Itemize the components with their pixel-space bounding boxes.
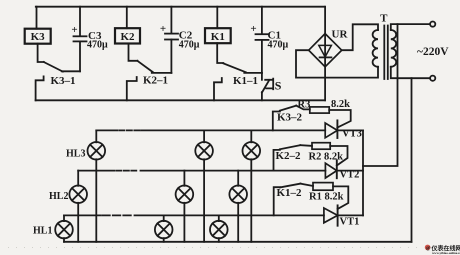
wire R2 to gate VT2 <box>330 146 347 166</box>
relay contact K1-2 <box>274 187 280 215</box>
relay contact K1-1 <box>217 43 223 63</box>
svg-text:K2–2: K2–2 <box>276 150 302 162</box>
wire UR right vertex to transformer coil top <box>342 24 378 50</box>
lamp HL3a <box>95 130 97 142</box>
lamp row HL3 wire <box>96 129 117 131</box>
wire cathode rail <box>362 130 364 215</box>
relay contact K2-1 <box>129 44 138 61</box>
relay contact K3-2 <box>273 112 280 131</box>
bridge rectifier UR <box>324 7 326 34</box>
svg-text:470μ: 470μ <box>87 40 108 51</box>
svg-text:K1–2: K1–2 <box>277 187 303 199</box>
relay contact K3-1 <box>38 44 44 62</box>
svg-text:VT3: VT3 <box>342 129 362 140</box>
svg-text:K3: K3 <box>31 31 46 43</box>
thyristor VT2 <box>325 163 336 178</box>
terminal upper 220V <box>430 22 435 27</box>
svg-text:R1 8.2k: R1 8.2k <box>309 192 344 203</box>
wire lower rail <box>36 99 326 101</box>
lamp HL1b <box>163 215 165 221</box>
svg-text:VT2: VT2 <box>340 170 360 181</box>
svg-text:VT1: VT1 <box>340 217 360 228</box>
resistor R1 <box>313 183 333 191</box>
transformer T primary winding <box>391 30 396 67</box>
lamp HL3b <box>203 130 205 142</box>
wire upper terminal to cathode rail <box>363 24 398 166</box>
capacitor C3 <box>79 7 81 36</box>
thyristor VT3 <box>325 123 337 138</box>
lamp HL1c <box>218 215 220 221</box>
svg-text:HL2: HL2 <box>49 191 68 202</box>
wire top rail <box>36 6 325 8</box>
svg-text:~220V: ~220V <box>417 46 449 58</box>
lamp HL3c <box>250 130 252 142</box>
svg-text:K3–2: K3–2 <box>277 111 303 123</box>
svg-text:K2: K2 <box>120 31 135 43</box>
wire R3 to gate VT3 <box>329 110 351 128</box>
thyristor VT1 <box>324 208 338 223</box>
capacitor C2 <box>170 7 172 34</box>
scan speckle row <box>8 247 420 249</box>
svg-text:+: + <box>160 23 166 35</box>
resistor R2 <box>312 143 330 150</box>
svg-text:HL1: HL1 <box>33 226 52 237</box>
transformer T core <box>383 26 385 80</box>
lamp row HL1 wire <box>64 214 101 216</box>
wire bottom rail <box>64 241 412 243</box>
svg-text:K1: K1 <box>211 31 225 43</box>
wire R1 to gate VT1 <box>333 186 348 209</box>
lamp HL2c <box>237 171 239 186</box>
svg-text:+: + <box>71 24 77 36</box>
svg-text:R3: R3 <box>298 99 311 110</box>
svg-text:470μ: 470μ <box>268 40 289 51</box>
wire lower terminal to bottom rail <box>411 78 413 242</box>
relay K3 <box>36 7 38 29</box>
terminal lower 220V <box>430 76 435 81</box>
wire UR bottom vertex to lower rail <box>324 67 326 101</box>
watermark logo <box>425 245 431 251</box>
svg-text:K3–1: K3–1 <box>51 75 76 87</box>
lamp row HL2 wire <box>78 170 114 172</box>
svg-text:S: S <box>275 79 282 93</box>
svg-text:R2 8.2k: R2 8.2k <box>309 152 344 163</box>
relay K2 <box>126 7 128 29</box>
svg-text:UR: UR <box>332 29 349 41</box>
svg-text:K2–1: K2–1 <box>143 75 168 87</box>
switch S <box>261 73 263 80</box>
transformer T secondary winding <box>373 30 378 67</box>
lamp HL2b <box>183 171 185 186</box>
svg-text:8.2k: 8.2k <box>331 99 350 110</box>
lamp HL2a <box>77 171 79 186</box>
resistor R3 <box>310 107 329 113</box>
svg-text:470μ: 470μ <box>179 40 200 51</box>
svg-text:+: + <box>250 23 256 35</box>
relay contact K2-2 <box>274 150 280 171</box>
capacitor C1 <box>261 7 263 34</box>
relay K1 <box>216 7 218 29</box>
svg-text:www.yibiao-online.com: www.yibiao-online.com <box>432 251 460 255</box>
lamp HL1a <box>63 215 65 221</box>
svg-text:HL3: HL3 <box>66 149 85 160</box>
svg-text:K1–1: K1–1 <box>233 75 258 87</box>
svg-text:T: T <box>380 12 388 24</box>
wire UR left vertex to transformer coil bottom <box>296 50 378 77</box>
svg-text:@: @ <box>426 247 431 252</box>
